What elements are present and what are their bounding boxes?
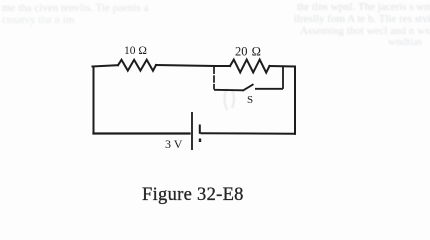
svg-text:me tha civen tenvlis. Tie paen: me tha civen tenvlis. Tie paenis a bbox=[2, 2, 148, 14]
svg-text:ilreslly fom A te b. Tlie res: ilreslly fom A te b. Tlie res stvity o bbox=[294, 13, 430, 25]
label 3 V bbox=[165, 137, 183, 151]
bleed-through ghost text top-right line 2 bbox=[294, 13, 430, 25]
switch S blade bbox=[243, 84, 254, 91]
bleed-through ghost text top-right line 1 bbox=[297, 1, 430, 13]
battery B1 short plate lower dot bbox=[199, 139, 201, 143]
wire top segment into R2 bbox=[214, 65, 230, 67]
bleed-through ghost text top-right line 4 bbox=[388, 36, 422, 48]
svg-text:wndtias: wndtias bbox=[388, 36, 422, 48]
label 20 ohm bbox=[235, 45, 261, 59]
wire top-right segment bbox=[270, 65, 296, 68]
bleed-through ghost text top-right line 3 bbox=[300, 25, 430, 37]
wire bottom-right segment bbox=[202, 132, 296, 135]
bleed-through ghost text top-left line 2 bbox=[2, 14, 75, 26]
bleed-through ghost text top-left line 1 bbox=[2, 2, 148, 14]
svg-text:10 Ω: 10 Ω bbox=[124, 45, 147, 57]
switch branch right vertical wire bbox=[282, 66, 284, 89]
svg-text:3 V: 3 V bbox=[165, 137, 183, 151]
resistor R2 20 ohm zigzag bbox=[230, 60, 270, 73]
switch branch left vertical wire bbox=[213, 67, 215, 90]
battery B1 long plate bbox=[191, 112, 193, 150]
wire bottom-left segment bbox=[94, 132, 190, 134]
caption Figure 32-E8 bbox=[142, 185, 244, 205]
wire top-left segment bbox=[93, 65, 119, 66]
wire left vertical bbox=[93, 67, 95, 134]
label S bbox=[247, 94, 253, 106]
switch branch bottom-left wire bbox=[214, 89, 244, 92]
svg-text:cnsatvy tlst n im: cnsatvy tlst n im bbox=[2, 14, 75, 26]
battery B1 short plate bbox=[199, 125, 201, 134]
wire right vertical bbox=[294, 67, 296, 134]
svg-text:S: S bbox=[247, 94, 253, 106]
wire top-middle segment bbox=[156, 65, 214, 66]
svg-text:Figure 32-E8: Figure 32-E8 bbox=[142, 185, 244, 205]
svg-text:thr tlns wpnl. The jaceris s w: thr tlns wpnl. The jaceris s wnt bbox=[297, 1, 430, 13]
switch branch bottom-right wire bbox=[255, 88, 283, 90]
resistor R1 10 ohm zigzag bbox=[118, 60, 156, 71]
label 10 ohm bbox=[124, 45, 147, 57]
bleed-through ghost mark centre bbox=[225, 88, 235, 110]
svg-text:20 Ω: 20 Ω bbox=[235, 45, 261, 59]
